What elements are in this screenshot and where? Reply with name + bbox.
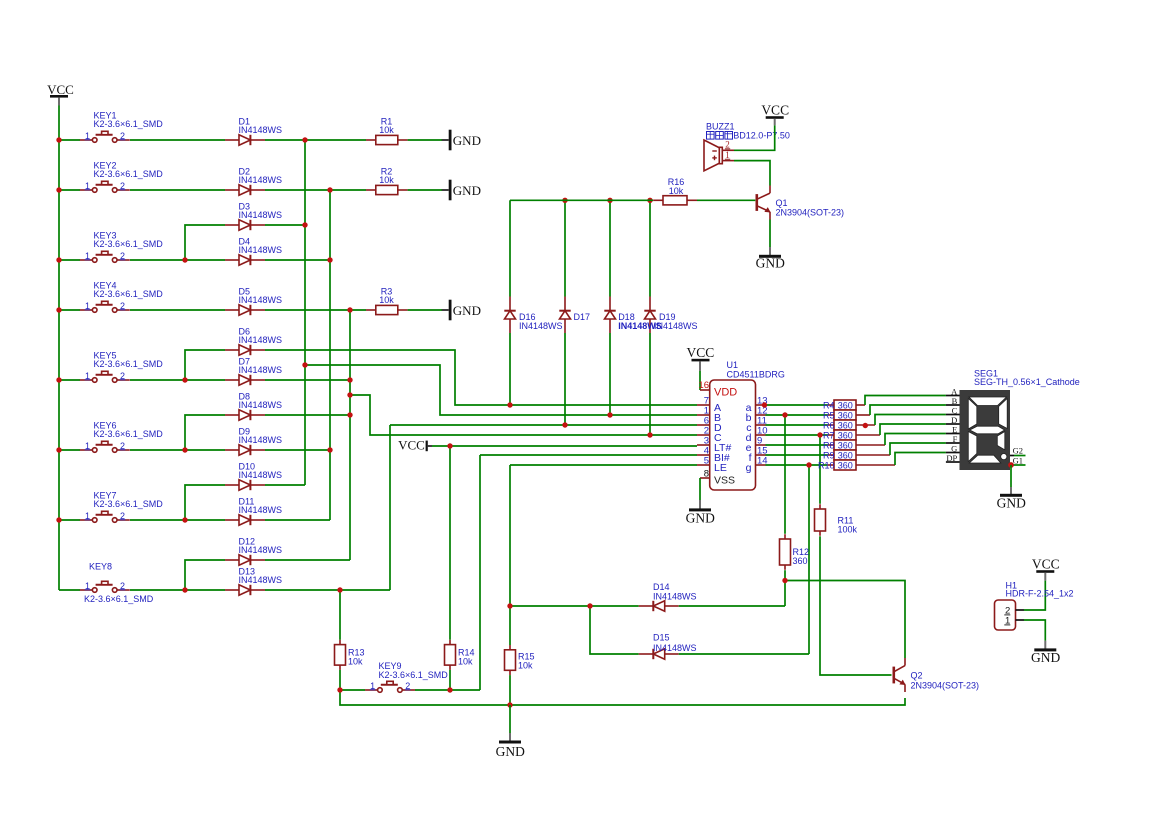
pin 1 B bbox=[697, 406, 710, 417]
svg-text:K2-3.6×6.1_SMD: K2-3.6×6.1_SMD bbox=[379, 670, 449, 680]
switch KEY1 bbox=[80, 131, 130, 143]
junction bbox=[507, 402, 512, 407]
ground flag GND (Q1 emitter) bbox=[769, 247, 771, 255]
power flag VCC (H1) bbox=[1032, 556, 1060, 580]
ground flag GND (SEG1) bbox=[1010, 487, 1012, 494]
wire bbox=[185, 415, 225, 450]
wire bbox=[130, 259, 225, 261]
wire bbox=[340, 689, 365, 691]
svg-text:IN4148WS: IN4148WS bbox=[239, 365, 283, 375]
wire bbox=[766, 444, 828, 446]
ground flag GND (U1 VSS) bbox=[699, 500, 701, 509]
wire bbox=[1024, 620, 1045, 641]
junction bbox=[347, 307, 352, 312]
wire bbox=[265, 309, 366, 311]
svg-text:1: 1 bbox=[85, 441, 90, 451]
svg-text:R9: R9 bbox=[823, 450, 835, 460]
svg-text:360: 360 bbox=[838, 400, 853, 410]
junction bbox=[347, 377, 352, 382]
svg-text:10k: 10k bbox=[458, 657, 473, 667]
svg-text:g: g bbox=[746, 462, 752, 474]
diode D15 bbox=[639, 649, 679, 659]
diode D14 bbox=[639, 601, 679, 611]
wire bbox=[699, 371, 701, 390]
pin G bbox=[946, 444, 960, 454]
wire bbox=[880, 424, 946, 435]
pin 12 b bbox=[756, 406, 768, 417]
svg-text:K2-3.6×6.1_SMD: K2-3.6×6.1_SMD bbox=[84, 594, 154, 604]
svg-text:IN4148WS: IN4148WS bbox=[519, 321, 563, 331]
svg-text:2: 2 bbox=[120, 131, 125, 141]
pin 11 c bbox=[756, 416, 767, 427]
diode D10 bbox=[225, 480, 265, 490]
junction bbox=[447, 687, 452, 692]
svg-text:D15: D15 bbox=[653, 633, 670, 643]
diode D2 bbox=[225, 185, 265, 195]
wire bbox=[564, 333, 566, 425]
transistor Q1 bbox=[757, 186, 771, 220]
svg-text:K2-3.6×6.1_SMD: K2-3.6×6.1_SMD bbox=[94, 289, 164, 299]
wire bbox=[59, 259, 80, 261]
wire bbox=[390, 424, 697, 426]
wire bbox=[766, 414, 828, 416]
svg-text:G1: G1 bbox=[1013, 455, 1023, 465]
wire bbox=[59, 589, 80, 591]
svg-text:SEG-TH_0.56×1_Cathode: SEG-TH_0.56×1_Cathode bbox=[974, 377, 1080, 387]
wire bbox=[408, 189, 442, 191]
junction bbox=[562, 198, 567, 203]
connector H1 bbox=[995, 600, 1025, 630]
svg-text:360: 360 bbox=[793, 556, 808, 566]
svg-text:R8: R8 bbox=[823, 440, 835, 450]
junction bbox=[327, 187, 332, 192]
wire bbox=[479, 455, 481, 690]
wire bbox=[509, 606, 511, 645]
svg-text:2N3904(SOT-23): 2N3904(SOT-23) bbox=[911, 681, 980, 691]
svg-text:IN4148WS: IN4148WS bbox=[239, 505, 283, 515]
junction bbox=[817, 432, 822, 437]
pin 15 f bbox=[756, 446, 768, 457]
svg-text:GND: GND bbox=[453, 303, 481, 318]
diode D8 bbox=[225, 410, 265, 420]
junction bbox=[182, 377, 187, 382]
wire bbox=[59, 379, 80, 381]
wire bbox=[59, 309, 80, 311]
wire bbox=[865, 396, 946, 406]
op-amp U1 body bbox=[710, 380, 756, 490]
wire bbox=[265, 259, 330, 261]
svg-text:K2-3.6×6.1_SMD: K2-3.6×6.1_SMD bbox=[94, 429, 164, 439]
pin A bbox=[946, 387, 960, 397]
svg-text:IN4148WS: IN4148WS bbox=[239, 125, 283, 135]
switch KEY8 bbox=[80, 581, 130, 593]
svg-text:IN4148WS: IN4148WS bbox=[239, 175, 283, 185]
svg-text:2N3904(SOT-23): 2N3904(SOT-23) bbox=[776, 208, 845, 218]
ground symbol bbox=[997, 494, 1026, 511]
svg-text:D17: D17 bbox=[574, 312, 591, 322]
svg-text:10k: 10k bbox=[379, 125, 394, 135]
wire bbox=[339, 590, 341, 640]
junction bbox=[863, 423, 868, 428]
power flag VCC (U1 VDD) bbox=[687, 345, 715, 371]
junction bbox=[56, 517, 61, 522]
pin 8 VSS bbox=[700, 468, 710, 479]
junction bbox=[56, 187, 61, 192]
svg-text:IN4148WS: IN4148WS bbox=[239, 435, 283, 445]
svg-text:K2-3.6×6.1_SMD: K2-3.6×6.1_SMD bbox=[94, 169, 164, 179]
wire bbox=[185, 225, 225, 260]
junction bbox=[507, 702, 512, 707]
diode D12 bbox=[225, 555, 265, 565]
ground flag GND (below R15) bbox=[509, 705, 511, 741]
svg-text:2: 2 bbox=[405, 681, 410, 691]
wire bbox=[697, 199, 755, 201]
diode D11 bbox=[225, 515, 265, 525]
wire bbox=[609, 333, 611, 415]
wire bbox=[130, 589, 225, 591]
switch KEY7 bbox=[80, 511, 130, 523]
diode D6 bbox=[225, 345, 265, 355]
wire bbox=[265, 139, 366, 141]
buzzer BUZZ1 bbox=[704, 140, 734, 171]
wire bbox=[130, 519, 225, 521]
diode D5 bbox=[225, 305, 265, 315]
junction bbox=[782, 578, 787, 583]
pin 16 VDD bbox=[698, 380, 709, 391]
wire bbox=[510, 464, 697, 466]
svg-text:360: 360 bbox=[838, 450, 853, 460]
wire bbox=[509, 333, 511, 405]
svg-text:VCC: VCC bbox=[761, 102, 789, 117]
display SEG1 body bbox=[960, 390, 1011, 470]
pin 9 e bbox=[756, 436, 766, 447]
svg-text:U1: U1 bbox=[727, 360, 739, 370]
resistor R15 bbox=[505, 645, 516, 675]
junction bbox=[647, 432, 652, 437]
segment d bbox=[969, 455, 1001, 463]
svg-text:1: 1 bbox=[370, 681, 375, 691]
switch KEY3 bbox=[80, 251, 130, 263]
svg-text:K2-3.6×6.1_SMD: K2-3.6×6.1_SMD bbox=[94, 499, 164, 509]
svg-text:2: 2 bbox=[120, 371, 125, 381]
wire bbox=[564, 200, 566, 296]
wire bbox=[265, 484, 305, 486]
svg-text:Q1: Q1 bbox=[776, 198, 788, 208]
wire bbox=[699, 478, 701, 500]
svg-text:R7: R7 bbox=[823, 430, 835, 440]
svg-text:IN4148WS: IN4148WS bbox=[239, 210, 283, 220]
wire bbox=[265, 589, 390, 591]
ground symbol bbox=[756, 255, 785, 271]
power flag VCC (left rail) bbox=[47, 82, 74, 106]
pin 5 LE bbox=[697, 456, 710, 467]
svg-text:10k: 10k bbox=[348, 657, 363, 667]
svg-text:2: 2 bbox=[120, 181, 125, 191]
ground symbol bbox=[1031, 648, 1060, 665]
wire bbox=[766, 464, 828, 466]
ground symbol bbox=[686, 508, 715, 525]
wire bbox=[265, 414, 350, 416]
wire bbox=[59, 139, 80, 141]
svg-text:VCC: VCC bbox=[47, 82, 74, 97]
wire bbox=[510, 605, 639, 607]
wire bbox=[130, 309, 225, 311]
pin 13 a bbox=[756, 396, 768, 407]
svg-text:GND: GND bbox=[453, 133, 481, 148]
pin G2 bbox=[1010, 446, 1023, 456]
wire bbox=[649, 333, 651, 435]
svg-text:360: 360 bbox=[838, 410, 853, 420]
svg-text:BD12.0-P7.50: BD12.0-P7.50 bbox=[733, 131, 790, 141]
svg-text:G: G bbox=[951, 444, 957, 454]
junction bbox=[327, 447, 332, 452]
junction bbox=[507, 603, 512, 608]
wire bbox=[766, 454, 828, 456]
resistor R6 bbox=[828, 420, 875, 430]
wire VCC rail bbox=[58, 106, 60, 591]
wire bbox=[408, 139, 442, 141]
junction bbox=[302, 362, 307, 367]
svg-text:360: 360 bbox=[838, 460, 853, 470]
ground flag GND (H1) bbox=[1044, 641, 1046, 649]
junction bbox=[762, 402, 767, 407]
diode D7 bbox=[225, 375, 265, 385]
svg-text:GND: GND bbox=[686, 511, 715, 526]
svg-text:360: 360 bbox=[838, 440, 853, 450]
pin B bbox=[946, 396, 960, 406]
svg-text:VCC: VCC bbox=[398, 438, 425, 453]
svg-text:GND: GND bbox=[1031, 650, 1060, 665]
svg-text:K2-3.6×6.1_SMD: K2-3.6×6.1_SMD bbox=[94, 359, 164, 369]
junction bbox=[647, 198, 652, 203]
svg-text:K2-3.6×6.1_SMD: K2-3.6×6.1_SMD bbox=[94, 239, 164, 249]
svg-text:IN4148WS: IN4148WS bbox=[239, 295, 283, 305]
svg-text:G2: G2 bbox=[1013, 446, 1023, 456]
wire bbox=[1014, 455, 1026, 457]
pin E bbox=[946, 425, 960, 435]
svg-text:1: 1 bbox=[85, 181, 90, 191]
svg-text:IN4148WS: IN4148WS bbox=[239, 245, 283, 255]
pin G1 bbox=[1010, 455, 1023, 465]
resistor R5 bbox=[828, 410, 870, 420]
wire bbox=[130, 379, 225, 381]
pin D bbox=[946, 415, 960, 425]
decimal point bbox=[1001, 454, 1007, 460]
wire bbox=[734, 161, 770, 186]
wire bbox=[59, 519, 80, 521]
junction bbox=[56, 307, 61, 312]
diode D9 bbox=[225, 445, 265, 455]
wire bbox=[449, 446, 451, 640]
svg-text:GND: GND bbox=[453, 183, 481, 198]
junction bbox=[182, 257, 187, 262]
svg-text:R10: R10 bbox=[818, 460, 835, 470]
junction bbox=[587, 603, 592, 608]
wire bbox=[1024, 581, 1045, 610]
wire bbox=[415, 689, 480, 691]
segment g bbox=[970, 426, 1005, 434]
junction bbox=[327, 257, 332, 262]
resistor R11 bbox=[815, 504, 826, 536]
wire bbox=[819, 435, 821, 504]
pin 3 LT# bbox=[697, 436, 710, 447]
svg-text:1: 1 bbox=[725, 150, 730, 160]
junction bbox=[806, 462, 811, 467]
diode D3 bbox=[225, 220, 265, 230]
svg-text:8: 8 bbox=[704, 468, 709, 479]
wire bbox=[59, 449, 80, 451]
svg-text:IN4148WS: IN4148WS bbox=[239, 545, 283, 555]
junction bbox=[337, 687, 342, 692]
segment c bbox=[997, 432, 1005, 450]
resistor R3 bbox=[366, 305, 408, 314]
resistor R12 bbox=[780, 534, 791, 570]
wire bbox=[449, 670, 451, 690]
junction bbox=[56, 257, 61, 262]
wire bbox=[304, 140, 306, 485]
junction bbox=[182, 447, 187, 452]
wire bbox=[130, 139, 225, 141]
wire bbox=[1010, 465, 1012, 487]
junction bbox=[182, 517, 187, 522]
svg-text:F: F bbox=[953, 434, 958, 444]
svg-text:16: 16 bbox=[698, 380, 709, 391]
wire bbox=[339, 670, 341, 690]
svg-text:LE: LE bbox=[714, 462, 727, 474]
ground flag GND bbox=[442, 300, 481, 321]
svg-text:D: D bbox=[951, 415, 957, 425]
svg-text:VCC: VCC bbox=[1032, 556, 1060, 571]
transistor Q2 bbox=[894, 658, 906, 692]
pin DP bbox=[946, 453, 960, 463]
wire bbox=[679, 605, 785, 607]
wire bbox=[265, 224, 305, 226]
wire bbox=[870, 405, 946, 415]
power flag VCC (LT# net) bbox=[398, 438, 432, 453]
svg-text:10k: 10k bbox=[669, 186, 684, 196]
label BUZZ1 value bbox=[707, 131, 790, 141]
svg-text:2: 2 bbox=[120, 511, 125, 521]
junction bbox=[562, 422, 567, 427]
svg-text:HDR-F-2.54_1x2: HDR-F-2.54_1x2 bbox=[1006, 589, 1074, 599]
wire bbox=[785, 581, 905, 659]
svg-text:1: 1 bbox=[85, 301, 90, 311]
wire bbox=[265, 350, 697, 405]
diode D16 bbox=[504, 297, 515, 334]
pin 7 A bbox=[697, 396, 710, 407]
wire bbox=[265, 379, 350, 381]
svg-text:360: 360 bbox=[838, 420, 853, 430]
wire bbox=[1013, 464, 1026, 466]
wire bbox=[808, 465, 810, 654]
resistor R4 bbox=[828, 400, 865, 410]
svg-text:D14: D14 bbox=[653, 582, 670, 592]
svg-text:VDD: VDD bbox=[714, 387, 737, 399]
wire bbox=[734, 125, 775, 150]
svg-text:E: E bbox=[952, 425, 957, 435]
resistor R16 bbox=[653, 196, 697, 205]
junction bbox=[337, 587, 342, 592]
segment b bbox=[999, 399, 1008, 429]
resistor R7 bbox=[828, 430, 880, 440]
wire bbox=[510, 199, 653, 201]
wire bbox=[590, 606, 639, 654]
wire bbox=[895, 453, 946, 466]
wire bbox=[784, 415, 786, 534]
wire bbox=[509, 200, 511, 296]
pin F bbox=[946, 434, 960, 444]
junction bbox=[607, 412, 612, 417]
power flag VCC (buzzer) bbox=[761, 102, 789, 125]
resistor R9 bbox=[828, 450, 890, 460]
junction bbox=[607, 198, 612, 203]
pin 10 d bbox=[756, 426, 768, 437]
svg-text:IN4148WS: IN4148WS bbox=[239, 400, 283, 410]
svg-text:DP: DP bbox=[946, 453, 957, 463]
svg-text:R4: R4 bbox=[823, 400, 835, 410]
svg-text:Q2: Q2 bbox=[911, 671, 923, 681]
resistor R10 bbox=[828, 460, 895, 470]
wire bbox=[480, 454, 697, 456]
wire bbox=[885, 434, 946, 446]
junction bbox=[447, 443, 452, 448]
svg-text:GND: GND bbox=[997, 495, 1026, 510]
wire bbox=[350, 395, 697, 435]
wire bbox=[329, 190, 331, 520]
switch KEY6 bbox=[80, 441, 130, 453]
svg-text:100k: 100k bbox=[838, 525, 858, 535]
segment a bbox=[969, 397, 1007, 406]
svg-text:10k: 10k bbox=[379, 175, 394, 185]
pin 6 D bbox=[697, 416, 710, 427]
resistor R14 bbox=[445, 640, 456, 670]
junction bbox=[302, 222, 307, 227]
wire bbox=[769, 220, 771, 248]
diode D13 bbox=[225, 585, 265, 595]
wire bbox=[432, 445, 697, 447]
wire bbox=[130, 189, 225, 191]
ground flag GND bbox=[442, 130, 481, 151]
svg-text:A: A bbox=[951, 387, 958, 397]
wire bbox=[509, 675, 511, 705]
switch KEY2 bbox=[80, 181, 130, 193]
wire bbox=[349, 310, 351, 560]
svg-text:1: 1 bbox=[85, 251, 90, 261]
junction bbox=[56, 377, 61, 382]
ground symbol bbox=[496, 741, 525, 760]
svg-text:1: 1 bbox=[85, 511, 90, 521]
svg-text:2: 2 bbox=[120, 301, 125, 311]
junction bbox=[347, 392, 352, 397]
junction bbox=[56, 137, 61, 142]
svg-text:10k: 10k bbox=[518, 661, 533, 671]
svg-text:2: 2 bbox=[120, 251, 125, 261]
svg-text:C: C bbox=[952, 406, 958, 416]
svg-text:10k: 10k bbox=[379, 295, 394, 305]
svg-text:CD4511BDRG: CD4511BDRG bbox=[727, 370, 785, 380]
wire bbox=[649, 200, 651, 296]
svg-text:1: 1 bbox=[85, 131, 90, 141]
diode D17 bbox=[559, 297, 570, 334]
ground flag GND bbox=[442, 180, 481, 201]
switch KEY4 bbox=[80, 301, 130, 313]
svg-text:1: 1 bbox=[85, 581, 90, 591]
wire bbox=[265, 449, 330, 451]
junction bbox=[782, 412, 787, 417]
switch KEY9 bbox=[365, 681, 415, 693]
wire bbox=[265, 189, 366, 191]
svg-text:1: 1 bbox=[85, 371, 90, 381]
